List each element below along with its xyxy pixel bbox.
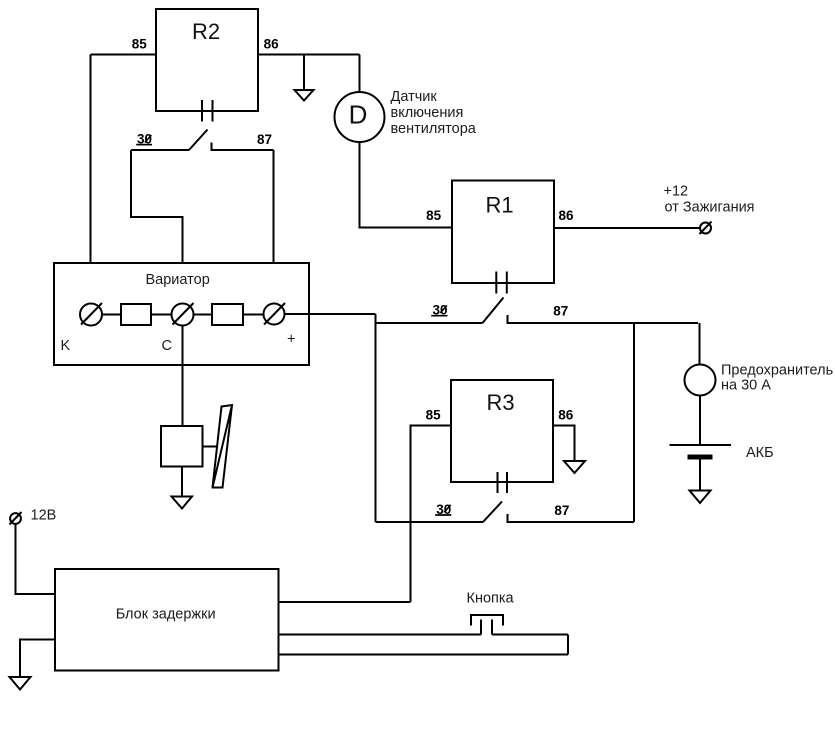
delay block box [55,569,279,671]
ground symbol motor [172,497,193,509]
wire R1 pin86 to ignition terminal [554,227,700,229]
ground symbol delay block [10,677,31,690]
terminal circle 12V [10,513,21,524]
ground stub below 86 wire [303,55,305,91]
svg-text:включения: включения [391,105,464,121]
wire R2 pin86 to right [258,54,360,56]
variator terminal K [80,304,102,326]
variator resistor 2 [212,304,243,325]
svg-text:87: 87 [257,132,272,147]
svg-text:Предохранитель: Предохранитель [721,363,833,379]
wire R2 switch 87 to variator plus [273,150,275,303]
ground symbol top [295,90,314,101]
bus bar top wire [279,634,569,636]
relay R1 coil contact bars [496,272,507,294]
relay R2 box [156,9,258,111]
variator terminal C [172,304,194,326]
wire resistor1 to C [151,314,172,316]
relay R1 box [452,181,554,284]
svg-text:86: 86 [264,37,280,52]
svg-text:85: 85 [426,408,442,423]
wire battery to ground [699,460,701,491]
svg-text:Кнопка: Кнопка [467,591,515,607]
svg-text:87: 87 [554,503,569,518]
fuse circle [685,365,716,396]
button cap [471,615,503,626]
terminal circle +12 ignition [700,223,711,234]
variator terminal plus [264,304,285,325]
fan blade [213,405,233,488]
svg-text:K: K [61,338,71,354]
relay R3 coil contact bars [498,472,508,493]
motor shaft stub [203,446,222,448]
svg-text:85: 85 [132,37,148,52]
wire branch down at x634 [633,323,635,522]
svg-text:12В: 12В [31,508,57,524]
bus bar right end [567,635,569,655]
svg-text:R3: R3 [486,390,514,415]
svg-text:от Зажигания: от Зажигания [665,199,755,215]
svg-text:на 30 А: на 30 А [721,378,771,394]
svg-text:R1: R1 [485,192,513,217]
wire delay block output to R3 pin85 line [279,601,411,603]
variator resistor 1 [121,304,151,325]
wire C to resistor2 [194,314,213,316]
svg-text:R2: R2 [192,19,220,44]
svg-text:Блок задержки: Блок задержки [116,606,216,622]
svg-text:+: + [287,332,295,348]
switch R3 30-87 row [376,502,635,523]
ground symbol R3 [564,461,585,473]
svg-text:С: С [162,338,172,354]
wire resistor2 to plus [243,314,264,316]
svg-text:+12: +12 [664,184,689,200]
wire R3 pin85 to delay block [411,426,452,603]
wire plus terminal to main vertical [285,313,376,315]
svg-text:86: 86 [558,408,574,423]
switch R2 30-87 [131,130,274,151]
battery minus plate [688,455,713,460]
wire delay block to ground [20,640,55,678]
svg-text:85: 85 [426,208,442,223]
wire fuse to battery [699,396,701,446]
sensor D circle [335,92,385,142]
motor box [161,426,203,467]
wire variator C to motor [182,326,184,427]
svg-text:Датчик: Датчик [391,89,438,105]
wire down to fuse [699,323,701,365]
button contacts [481,620,492,635]
wire left vertical down to variator K [90,55,92,305]
svg-text:АКБ: АКБ [746,445,774,461]
wire 12V to delay block [16,524,56,594]
relay R3 box [451,380,553,482]
wire down to sensor D [359,55,361,93]
svg-text:Вариатор: Вариатор [146,272,210,288]
svg-text:87: 87 [553,304,568,319]
svg-text:вентилятора: вентилятора [391,121,477,137]
svg-text:D: D [349,99,368,129]
ground symbol battery [690,491,711,504]
battery plus plate [670,444,732,446]
wire R3 pin86 to ground [553,426,575,462]
main vertical power wire [375,314,377,522]
bus bar bottom wire [279,654,569,656]
wire R2 pin85 to left vertical [91,54,157,56]
wire motor to ground [181,467,183,497]
svg-text:86: 86 [559,208,575,223]
wire sensor D to R1 pin85 [360,142,453,228]
variator box [54,263,309,365]
relay R2 coil contact bars [202,100,213,122]
switch R1 30-87 row [376,298,699,324]
wire K to resistor1 [102,314,121,316]
wire R2 switch 30 to variator C [131,150,183,304]
